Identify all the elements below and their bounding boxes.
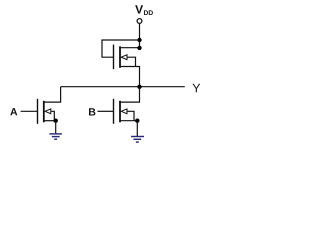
wire M3 source (121, 120, 138, 122)
node M3 source junction dot (135, 119, 139, 123)
wire VDD stem (139, 24, 141, 48)
wire M3 ground stem (136, 121, 138, 136)
wire M2 drain up to output line (44, 87, 60, 102)
VDD terminal circle (137, 19, 142, 24)
transistor M1 load: channel bar (119, 46, 121, 68)
transistor M1 load: gate bar (113, 45, 115, 70)
node M2 source junction dot (54, 119, 58, 123)
wire M1 drain to VDD (121, 47, 140, 49)
wire M3 drain up to output node (121, 87, 140, 102)
transistor M1 load: body arrow (121, 55, 135, 67)
wire A gate lead (21, 110, 37, 112)
transistor M2 (input A): gate bar (37, 99, 39, 124)
wire M2 source (44, 120, 55, 122)
text DD subscript (144, 10, 153, 15)
wire M2 ground stem (55, 121, 57, 134)
transistor M2 (input A): channel bar (43, 101, 45, 123)
node Y label (192, 84, 200, 93)
node VDD label (135, 5, 143, 13)
transistor M2: body arrow (45, 109, 54, 121)
node output junction dot (137, 85, 141, 89)
node A label (10, 108, 17, 115)
wire output line Y (61, 86, 185, 88)
node B label (89, 108, 95, 115)
ground (below M2) (49, 134, 62, 139)
wire B gate lead (98, 110, 114, 112)
ground (below M3) (131, 137, 144, 143)
transistor M3: body arrow (121, 109, 134, 121)
transistor M3 (input B): channel bar (119, 101, 121, 123)
node junction dot (M1 drain at VDD) (137, 46, 141, 50)
wire load gate loop (102, 40, 140, 57)
node junction dot (gate loop to VDD) (137, 38, 141, 42)
transistor M3 (input B): gate bar (113, 99, 115, 124)
wire M1 source down to output node (121, 67, 140, 87)
